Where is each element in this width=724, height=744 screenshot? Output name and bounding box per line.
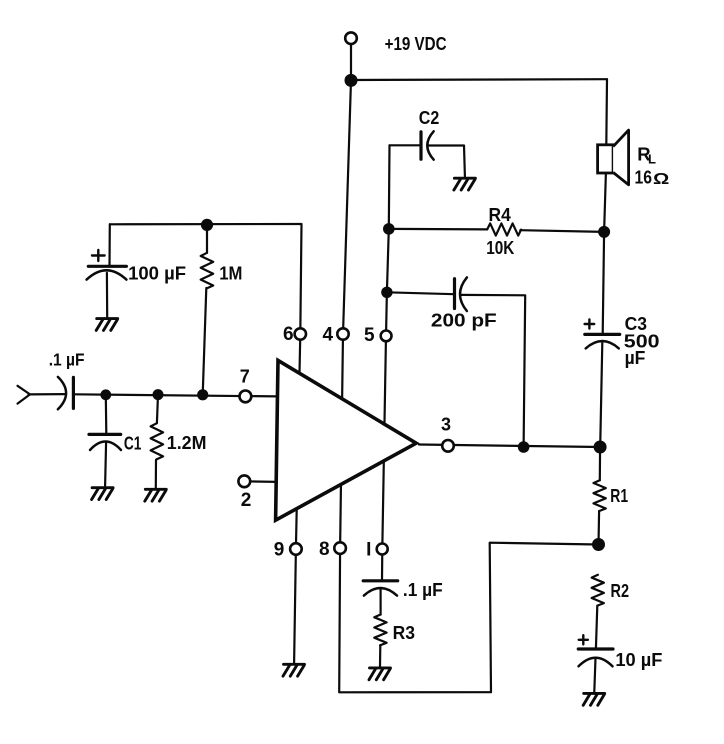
svg-text:R2: R2 xyxy=(611,580,630,601)
svg-text:.1 µF: .1 µF xyxy=(403,580,443,600)
svg-text:.1 µF: .1 µF xyxy=(49,349,85,369)
svg-text:5: 5 xyxy=(364,325,375,346)
svg-text:I: I xyxy=(366,539,371,560)
svg-text:4: 4 xyxy=(323,325,334,346)
svg-text:R3: R3 xyxy=(393,622,415,643)
svg-text:1M: 1M xyxy=(219,263,242,284)
svg-text:16: 16 xyxy=(635,166,653,187)
svg-text:C2: C2 xyxy=(419,108,440,128)
svg-text:200 pF: 200 pF xyxy=(431,309,497,330)
svg-text:L: L xyxy=(648,152,656,167)
svg-text:10 µF: 10 µF xyxy=(615,649,662,670)
svg-text:8: 8 xyxy=(319,539,330,560)
svg-text:9: 9 xyxy=(274,539,285,560)
svg-text:C1: C1 xyxy=(124,433,141,453)
svg-text:Ω: Ω xyxy=(653,171,670,188)
svg-text:µF: µF xyxy=(625,347,646,368)
svg-text:6: 6 xyxy=(283,324,294,345)
svg-text:+19 VDC: +19 VDC xyxy=(385,33,447,54)
svg-text:R1: R1 xyxy=(610,485,628,506)
svg-text:100 µF: 100 µF xyxy=(128,262,186,283)
svg-text:R4: R4 xyxy=(489,204,512,225)
svg-text:3: 3 xyxy=(441,415,451,435)
svg-text:10K: 10K xyxy=(486,237,515,258)
svg-text:7: 7 xyxy=(240,367,250,387)
svg-text:1.2M: 1.2M xyxy=(167,432,207,453)
svg-text:2: 2 xyxy=(241,490,252,511)
